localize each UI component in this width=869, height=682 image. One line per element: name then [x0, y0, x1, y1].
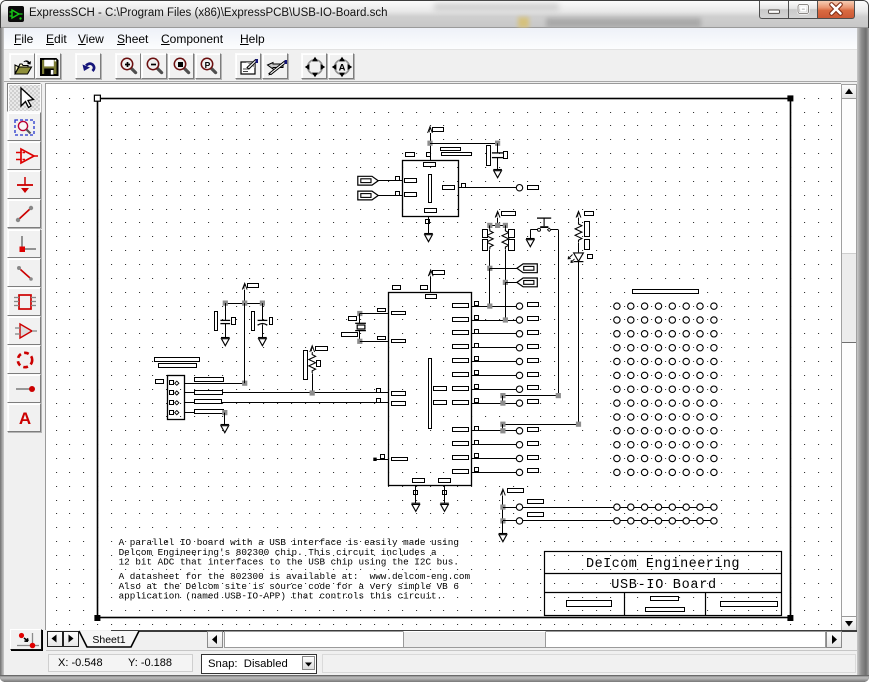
node VCC-C3: [427, 141, 432, 146]
label U2 pin row 10: [453, 442, 469, 446]
ground J1: [221, 425, 230, 433]
power VCC LED: [576, 211, 581, 217]
label net row 9: [528, 428, 539, 432]
pushbutton S1: [537, 218, 551, 231]
wire C3 top: [497, 143, 499, 152]
wire R3 to D1: [578, 243, 580, 253]
wire GND strip to circle: [503, 520, 516, 522]
wire U2 pin row 1: [471, 306, 516, 308]
label U2 pin row 6: [453, 373, 469, 377]
label U2 pin left b: [392, 402, 406, 406]
IC U1: [403, 161, 459, 217]
label net row 1: [528, 303, 539, 307]
label bar U1 value: [441, 148, 461, 151]
label bar U1 name: [442, 153, 472, 156]
wire to R3: [578, 218, 580, 222]
junction rail: [495, 223, 500, 228]
wire U2 pin row 2: [471, 320, 516, 322]
label U2 pin xtal1: [392, 312, 406, 315]
wire U1 power to pin 1: [430, 133, 432, 160]
wire U2 pin row 8: [471, 403, 516, 405]
label VCC pullups: [502, 212, 516, 216]
terminal circle row 3: [516, 331, 522, 337]
LED D1: [568, 253, 583, 263]
wire caps top rail: [225, 303, 262, 305]
svg-text:USB-IO Board: USB-IO Board: [611, 578, 717, 593]
label R4 ref: [304, 351, 308, 380]
wire U2 power: [430, 276, 432, 292]
junction VCC-C3: [495, 141, 500, 146]
power VCC U1: [428, 127, 433, 133]
label U2 pin row 1: [453, 304, 469, 308]
wire S1 to ground: [530, 230, 532, 239]
pin 2 square J1: [170, 391, 174, 395]
label net J1 pin2: [195, 391, 223, 395]
wire stub to pin row: [502, 396, 504, 404]
label U2 pin row 11: [453, 456, 469, 460]
label U2 pin row 12: [453, 470, 469, 474]
junction SCL row: [503, 317, 508, 322]
pin square U2 left b: [377, 399, 381, 403]
label net row 3: [528, 331, 539, 335]
label U1 pin out: [443, 186, 455, 190]
pin 4 diamond J1: [175, 411, 179, 415]
capacitor C2 polarized: [258, 317, 268, 325]
wire R2 stub: [505, 225, 507, 228]
label J4 header: [633, 290, 699, 294]
wire U2 pin row 7: [471, 389, 516, 391]
junction S1 corner: [556, 393, 561, 398]
pin 3 diamond J1: [175, 401, 179, 405]
wire P2 to U1: [378, 195, 402, 197]
power VCC strip: [501, 489, 506, 495]
ground C2: [258, 338, 267, 346]
label R4 value: [317, 361, 321, 367]
label U2 inner row: [434, 387, 447, 391]
label J1 value: [159, 364, 197, 368]
label net row 10: [528, 442, 539, 446]
wire power to caps: [244, 290, 246, 304]
label VCC LED: [585, 212, 594, 216]
ground U2 a: [412, 503, 421, 511]
pin 2 diamond J1: [175, 391, 179, 395]
wire R2 to SCL: [505, 250, 507, 283]
label net GND strip: [528, 513, 544, 517]
wire S1 right: [551, 229, 558, 231]
label U2 bottom pin b: [439, 479, 451, 483]
connector J3 SCL: [517, 278, 537, 287]
wire S1 down: [558, 230, 560, 396]
terminal circle row 8: [516, 400, 522, 406]
label U2 refdes vertical: [429, 359, 432, 429]
pin 1 square U1: [427, 153, 431, 157]
pin square U2 row 10: [475, 441, 479, 445]
GND strip terminals: [614, 518, 717, 524]
wire strip to ground: [502, 521, 504, 534]
junction D1 row: [500, 428, 505, 433]
label C1 ref: [215, 312, 218, 331]
label U2 pin row 2: [453, 318, 469, 322]
terminal circle row 6: [516, 372, 522, 378]
junction SDA row: [487, 304, 492, 309]
label net U1 out: [528, 186, 539, 190]
wire VCC strip to circle: [503, 507, 516, 509]
label U2 xtal1 pin: [378, 309, 386, 312]
ground S1: [526, 239, 535, 247]
terminal circle row 11: [516, 455, 522, 461]
connector P2 USB D-: [358, 191, 378, 200]
pin 1 square J1: [170, 381, 174, 385]
junction strip VCC: [500, 505, 505, 510]
wire VCC strip rail: [523, 507, 717, 509]
label R3 ref: [585, 222, 590, 237]
svg-text:12 bit ADC that interfaces to: 12 bit ADC that interfaces to the USB ch…: [119, 557, 459, 568]
wire U2 pin row 3: [471, 333, 516, 335]
junction R1 top: [487, 223, 492, 228]
terminal circle row 12: [516, 469, 522, 475]
wire P1 to U1: [378, 180, 402, 182]
wire J1 gnd down: [224, 413, 226, 425]
label R2 ref: [509, 230, 515, 238]
junction S1 row: [500, 401, 505, 406]
label U2 pin row 9: [453, 428, 469, 432]
wire C2 top lead: [262, 303, 264, 320]
terminal circle row 5: [516, 358, 522, 364]
label U1 pin D-: [405, 193, 417, 197]
label U1 pin D+: [405, 179, 417, 183]
label U2 pin left bottom: [392, 458, 408, 461]
wire U2 gnd a: [415, 486, 417, 504]
label C1 value: [232, 318, 236, 325]
label R2 value: [509, 240, 515, 251]
label U2 pin row 3: [453, 331, 469, 335]
wire R4 down: [312, 373, 314, 393]
label VCC caps: [248, 284, 259, 288]
application icon: [8, 6, 24, 22]
wire SCL to plug: [505, 282, 517, 284]
ground strip: [499, 534, 508, 542]
resistor R4: [309, 352, 316, 373]
pin square U1 out: [462, 184, 466, 188]
VCC strip terminals: [614, 504, 717, 510]
wire R4 stub: [312, 351, 314, 353]
svg-text:Sheet1: Sheet1: [92, 634, 125, 646]
junction SCL: [503, 280, 508, 285]
svg-text:A: A: [339, 63, 346, 74]
capacitor C1: [220, 320, 230, 323]
label Y1 value: [342, 333, 358, 337]
label R3 value: [585, 240, 590, 250]
pin square U2 bottom b: [443, 491, 447, 495]
pin square U1 gnd: [426, 220, 430, 224]
wire C3 to ground: [497, 158, 499, 170]
label net row 7: [528, 386, 539, 390]
label U2 pin top a: [393, 286, 401, 290]
label U1 top pin: [424, 163, 436, 167]
wire XTAL1 to U2: [360, 313, 389, 315]
wire XTAL2 to U2: [360, 341, 389, 343]
connector P1 USB D+: [358, 176, 378, 185]
label pin1 name: [406, 153, 415, 157]
label VCC strip: [508, 489, 524, 493]
label title cell2a: [651, 597, 679, 601]
label net VCC strip: [528, 500, 544, 504]
vertical scrollbar: [841, 84, 857, 630]
pin square U2 bottom a: [414, 491, 418, 495]
wire J1 pin4 to ground: [185, 412, 225, 414]
power VCC caps: [242, 283, 247, 289]
wire U2 left bottom pin: [374, 459, 389, 461]
junction J1 gnd: [222, 410, 227, 415]
node U1 out terminal: [516, 185, 522, 191]
wire U2 gnd b: [444, 486, 446, 504]
wire XTAL1 down: [359, 314, 361, 323]
pin square U1 D+: [396, 177, 400, 181]
connector J2 SDA: [517, 264, 537, 273]
svg-text:P: P: [205, 60, 211, 70]
label U2 inner row: [434, 401, 447, 405]
ground C1: [221, 338, 230, 346]
pin stub U2 left bottom: [373, 458, 376, 461]
label VCC U1: [433, 128, 444, 132]
resistor R1: [486, 229, 493, 250]
resistor R2: [502, 229, 509, 250]
label U2 top pin: [426, 295, 437, 299]
pin square U2 row 3: [475, 330, 479, 334]
wire XTAL2 up: [359, 331, 361, 342]
junction D1 corner: [576, 422, 581, 427]
junction R2 top: [503, 223, 508, 228]
junction XTAL2: [357, 339, 362, 344]
label net row 4: [528, 345, 539, 349]
svg-text:A: A: [19, 409, 31, 428]
snap tool button: [10, 629, 42, 650]
label U2 pin xtal2: [392, 340, 406, 343]
pin square U1 D-: [396, 192, 400, 196]
pin square U2 row 11: [475, 454, 479, 458]
wire U2 pin row 4: [471, 347, 516, 349]
label R1 value: [483, 240, 488, 251]
label title cell2b: [646, 608, 685, 612]
junction caps: [242, 301, 247, 306]
label net row 6: [528, 373, 539, 377]
svg-text:DeIcom Engineering: DeIcom Engineering: [586, 557, 740, 572]
pin 3 square J1: [170, 401, 174, 405]
wire SDA down: [489, 268, 491, 306]
label D1: [588, 255, 593, 259]
label net J1 pin1: [195, 378, 224, 382]
wire pullup top rail: [490, 225, 506, 227]
label net row 12: [528, 469, 539, 473]
wire U2 pin row 11: [471, 458, 516, 460]
pin square U2 row 2: [475, 316, 479, 320]
svg-text:application (named USB-IO-APP): application (named USB-IO-APP) that cont…: [119, 591, 443, 602]
sheet border frame (decorative): [98, 99, 791, 618]
title block: [545, 552, 782, 616]
pin 1 diamond J1: [175, 381, 179, 385]
terminal circle row 1: [516, 303, 522, 309]
label C2 ref: [252, 312, 255, 331]
wire stub to pin row 9: [502, 424, 504, 431]
label net row 5: [528, 359, 539, 363]
label J1 pin1: [156, 380, 164, 384]
power VCC R4: [310, 346, 315, 352]
wire J1 pin3 to U2: [185, 402, 389, 404]
junction C1 top: [223, 301, 228, 306]
power VCC U2: [428, 270, 433, 276]
wire C1 to ground: [225, 324, 227, 338]
crystal Y1: [355, 323, 366, 330]
label net row 8: [528, 400, 539, 404]
ground U1: [424, 234, 433, 242]
connector J4 header 8x13: [614, 303, 717, 476]
wire U2 pin row 9: [471, 430, 516, 432]
terminal circle row 10: [516, 442, 522, 448]
junction XTAL1: [357, 311, 362, 316]
label U1 bottom pin: [425, 209, 437, 213]
junction SDA: [487, 266, 492, 271]
power VCC pullups: [495, 211, 500, 217]
terminal circle row 7: [516, 386, 522, 392]
label R1 ref: [483, 230, 488, 238]
wire SCL down: [505, 282, 507, 320]
pin square U2 row 4: [475, 344, 479, 348]
label U1 refdes vertical: [429, 175, 432, 203]
pin square U2 left bottom: [381, 455, 385, 459]
terminal circle row 4: [516, 345, 522, 351]
pin square U2 row 6: [475, 371, 479, 375]
label title cell3: [721, 602, 778, 607]
wire strip vertical: [502, 495, 504, 521]
label title cell1: [567, 601, 612, 607]
label net row 11: [528, 456, 539, 460]
wire S1 left: [530, 229, 537, 231]
pin square U2 row 12: [475, 468, 479, 472]
wire U1 to ground: [428, 216, 430, 233]
resistor R3: [575, 222, 582, 243]
wire J1 pin1 to VCC net: [185, 383, 245, 385]
capacitor C3: [492, 153, 503, 158]
label U2 pin top b: [421, 286, 428, 290]
pin square U2 row 9: [475, 427, 479, 431]
status bar: [4, 651, 857, 675]
wire C1 top lead: [225, 303, 227, 320]
label VCC R4: [316, 347, 328, 351]
wire power to pullups: [497, 218, 499, 226]
label U2 pin left a: [392, 392, 406, 396]
junction S1 net: [500, 393, 505, 398]
label U2 pin row 5: [453, 359, 469, 363]
label C3 vertical: [487, 146, 491, 166]
sheet tab bar: [46, 630, 857, 651]
wire R1 to SDA: [489, 250, 491, 269]
ground U2 b: [440, 503, 449, 511]
pin square U2 left a: [377, 389, 381, 393]
wire C2 to ground: [262, 324, 264, 337]
label C2 value: [270, 318, 273, 325]
label U2 pin row 4: [453, 345, 469, 349]
junction J1-VCC: [242, 381, 247, 386]
IC U2 802300: [389, 293, 472, 486]
wire to capacitor C3: [430, 143, 498, 145]
terminal circle row 2: [516, 317, 522, 323]
terminal VCC strip: [516, 504, 522, 510]
wire SDA to plug: [490, 268, 517, 270]
terminal circle row 9: [516, 428, 522, 434]
wire U1 out: [459, 187, 517, 189]
pin square U2 row 8: [475, 399, 479, 403]
wire R1 stub: [489, 225, 491, 228]
wire U2 pin row 6: [471, 375, 516, 377]
wire U2 pin row 12: [471, 472, 516, 474]
label VCC U2: [433, 271, 445, 275]
wire U2 pin row 5: [471, 361, 516, 363]
label J1 name: [155, 358, 200, 362]
label U2 pin row 8: [453, 401, 469, 405]
junction D1 net: [500, 422, 505, 427]
wire GND strip rail: [523, 520, 717, 522]
pin 4 square J1: [170, 411, 174, 415]
connector J1: [168, 376, 185, 420]
label U2 bottom pin a: [413, 479, 425, 483]
wire U2 pin row 10: [471, 444, 516, 446]
pin square U2 row 1: [475, 302, 479, 306]
note text paragraph 1: [119, 537, 459, 568]
wire D1 down: [578, 262, 580, 425]
note text paragraph 2: [119, 571, 471, 602]
wire D1 to U2: [503, 424, 579, 426]
label net row 2: [528, 317, 539, 321]
ground C3: [493, 170, 502, 178]
label C3 value: [504, 152, 508, 159]
terminal GND strip: [516, 518, 522, 524]
label net J1 pin3: [195, 400, 222, 404]
wire VCC net vertical: [244, 303, 246, 383]
label U2 xtal2 pin: [378, 337, 386, 340]
junction R4 net: [310, 390, 315, 395]
label U2 pin row 7: [453, 387, 469, 391]
pin square U2 row 5: [475, 357, 479, 361]
label net J1 pin4: [195, 410, 224, 414]
label Y1 ref: [349, 317, 357, 321]
junction C2 top: [260, 301, 265, 306]
wire S1 to U2: [503, 395, 558, 397]
wire J1 pin2 to U2: [185, 392, 389, 394]
junction strip GND: [500, 518, 505, 523]
pin square U2 row 7: [475, 385, 479, 389]
